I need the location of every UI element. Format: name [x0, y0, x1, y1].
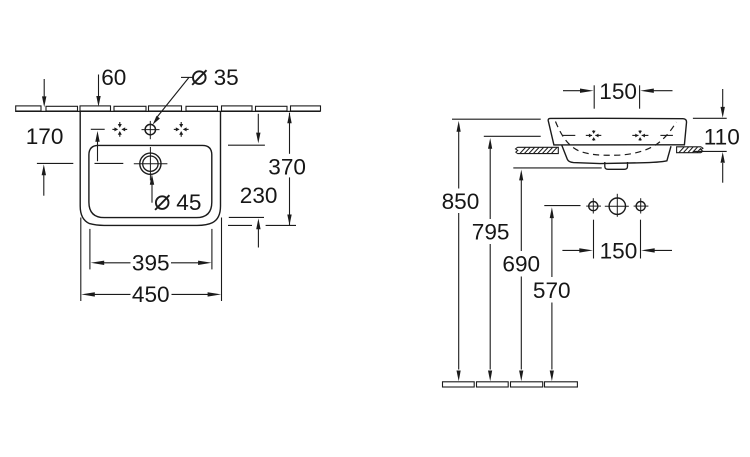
dim 110 bottom arrow	[722, 163, 724, 183]
wall bracket left	[516, 147, 559, 153]
svg-text:110: 110	[704, 124, 740, 149]
wall line	[15, 110, 320, 112]
label Ø 35	[193, 71, 206, 84]
svg-text:795: 795	[472, 219, 510, 244]
ext lines 150 lower	[593, 220, 595, 259]
svg-text:150: 150	[599, 79, 637, 104]
dim 60 lower arrow	[97, 142, 99, 162]
drain leader arrow	[151, 184, 153, 203]
svg-text:170: 170	[26, 124, 64, 149]
dim 170 top arrow	[43, 79, 45, 97]
dim 110 ext top	[693, 117, 727, 119]
fixing hole right	[635, 130, 645, 141]
svg-text:150: 150	[600, 238, 638, 263]
dim 150 lower right arrow	[655, 249, 673, 251]
drain circle centre	[609, 198, 625, 214]
dim 150 upper left arrow	[563, 90, 582, 92]
svg-text:570: 570	[533, 278, 571, 303]
tap level tick	[91, 128, 105, 130]
svg-text:60: 60	[101, 65, 126, 90]
dashed bowl profile	[556, 122, 677, 156]
dim 150 upper right arrow	[654, 90, 673, 92]
dim line 690	[520, 180, 522, 251]
dim line 570	[551, 218, 553, 277]
basin outer outline	[80, 112, 220, 226]
tap cross left	[112, 122, 127, 137]
dim 230 bottom arrow	[257, 229, 259, 248]
dim line 850	[458, 132, 460, 189]
dim 395	[103, 262, 131, 264]
ext line 690	[513, 167, 601, 169]
drain circles	[140, 153, 161, 174]
ext line 795	[484, 135, 541, 137]
svg-text:230: 230	[240, 183, 278, 208]
hole centreline	[563, 134, 673, 136]
level line 170	[37, 162, 73, 164]
svg-text:395: 395	[132, 251, 170, 276]
svg-text:370: 370	[268, 154, 306, 179]
wall bracket right	[677, 147, 703, 153]
dim 170 bottom arrow	[43, 175, 45, 196]
dim 230 bottom level line	[229, 216, 264, 218]
ext line 850	[452, 118, 541, 120]
dim 370 line	[289, 113, 291, 154]
dim 110 top arrow	[722, 89, 724, 107]
svg-text:45: 45	[176, 190, 201, 215]
bottom level line 370	[228, 224, 252, 226]
dim 230 top arrow	[257, 114, 259, 133]
ext line 570	[544, 205, 580, 207]
ext line 395 right	[211, 229, 213, 270]
svg-text:450: 450	[132, 282, 170, 307]
drain stub	[605, 162, 628, 169]
drain circle small right	[636, 202, 645, 211]
basin inner bowl	[89, 145, 212, 217]
dim 230 top level line	[228, 144, 265, 146]
dim 150 upper ext lines	[593, 85, 595, 108]
wall tiles	[16, 106, 321, 111]
dim 450	[94, 293, 131, 295]
svg-text:850: 850	[442, 189, 480, 214]
dim line 795	[489, 149, 491, 220]
leader to tap hole	[181, 76, 193, 78]
body outline	[548, 118, 686, 145]
dim 60 arrow	[98, 75, 100, 98]
tap hole circle	[145, 124, 155, 134]
svg-text:35: 35	[214, 65, 239, 90]
fixing hole left	[589, 130, 599, 141]
label Ø 45	[156, 196, 169, 209]
dim 150 lower left arrow	[562, 249, 579, 251]
tap cross right	[174, 122, 189, 137]
floor tiles	[443, 382, 578, 387]
drain circle small left	[589, 202, 598, 211]
ext line 395 left	[89, 229, 91, 270]
dim 110 ext bottom	[693, 150, 727, 152]
ext line 450 right	[221, 218, 223, 302]
body lower tier	[562, 145, 671, 163]
ext line 450 left	[80, 218, 82, 302]
svg-text:690: 690	[502, 252, 540, 277]
